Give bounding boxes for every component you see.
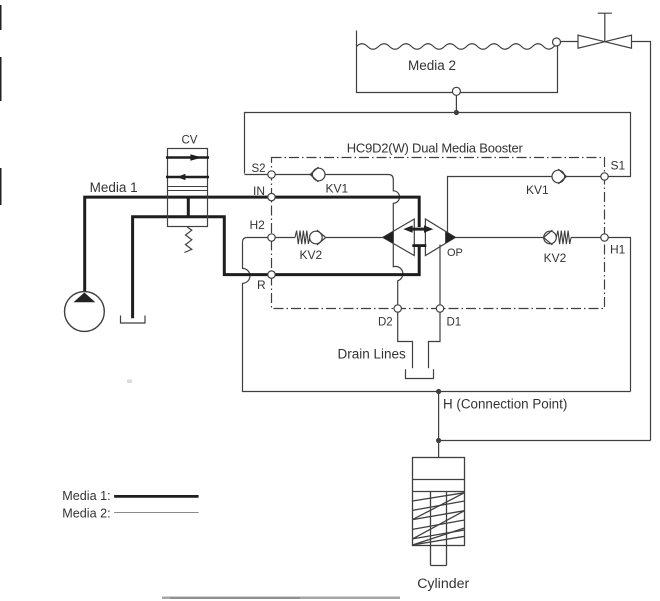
OP filled tips [383, 231, 393, 243]
svg-text:CV: CV [182, 135, 198, 147]
CV arrow right [166, 156, 209, 158]
svg-text:H1: H1 [610, 243, 626, 257]
drain lines funnel [398, 312, 440, 378]
wire KV2 left to OP [326, 237, 383, 239]
wire S1 to KV1 right to OP apex [448, 177, 601, 238]
wire H2 to KV2 left [275, 237, 295, 239]
wire outer box top [245, 113, 631, 177]
OP double arrow [403, 225, 433, 232]
wire outer box left to S2 [245, 174, 268, 176]
wire H1 to outer right drop to H line [608, 238, 630, 392]
svg-text:Drain Lines: Drain Lines [338, 347, 407, 362]
check valve KV1 right [552, 169, 566, 184]
oscillator OP hollow triangles [383, 219, 456, 256]
node tank bottom outlet [452, 87, 460, 95]
CV thin dividers [168, 187, 208, 191]
svg-text:KV2: KV2 [544, 251, 567, 265]
junction dot lower [436, 438, 441, 443]
svg-text:KV2: KV2 [300, 248, 323, 262]
reservoir tank small [121, 316, 146, 324]
svg-text:D2: D2 [378, 317, 393, 329]
svg-text:H2: H2 [250, 218, 266, 232]
tank Media 2 [357, 31, 558, 93]
CV stub [187, 197, 190, 217]
booster box HC9D2 [272, 158, 605, 309]
wire D1 drop from OP [439, 245, 441, 305]
svg-text:S1: S1 [611, 159, 626, 173]
junction dot on outer box [454, 110, 459, 115]
node tank outlet top [553, 38, 561, 46]
svg-text:Media 1: Media 1 [90, 180, 138, 195]
wire OP to KV2 right [455, 237, 543, 239]
svg-text:R: R [257, 278, 266, 292]
svg-text:IN: IN [253, 184, 265, 198]
svg-text:H (Connection Point): H (Connection Point) [443, 397, 567, 412]
wire tank to valve [561, 41, 579, 43]
junction dot H line [436, 389, 441, 394]
check valve KV2 right [544, 230, 557, 245]
svg-text:HC9D2(W) Dual Media Booster: HC9D2(W) Dual Media Booster [347, 141, 524, 156]
wire cylinder drop [438, 392, 440, 458]
pump Media 1 [65, 292, 105, 332]
svg-text:D1: D1 [447, 317, 462, 329]
OP crossbar [412, 244, 426, 247]
svg-text:KV1: KV1 [526, 183, 549, 197]
thick pump to IN to OP to R return path [85, 197, 420, 318]
svg-text:Media 2:: Media 2: [62, 507, 110, 521]
wire valve to right drop [632, 42, 651, 441]
wire tank bottom drop [455, 95, 457, 112]
cylinder [413, 458, 465, 566]
svg-text:KV1: KV1 [326, 182, 349, 196]
spring KV2 left [295, 231, 310, 245]
svg-text:OP: OP [447, 247, 463, 259]
CV valve box [168, 149, 208, 227]
CV spring [184, 227, 191, 253]
svg-text:Media 1:: Media 1: [62, 489, 110, 503]
svg-text:Media 2: Media 2 [408, 58, 456, 73]
port circles booster [268, 171, 608, 312]
check valve KV1 left [310, 167, 325, 182]
wire lower horizontal to cylinder junction [439, 440, 651, 442]
spring KV2 right [556, 231, 571, 245]
svg-text:Cylinder: Cylinder [417, 576, 469, 592]
wire KV2 right to H1 [571, 237, 601, 239]
wire H2 left drop with hop [243, 238, 631, 392]
CV arrow left [166, 176, 209, 178]
wire S2 to KV1 to D2 drain [275, 175, 403, 305]
valve shutoff [578, 13, 632, 48]
svg-text:S2: S2 [252, 163, 266, 175]
check valve KV2 left [310, 230, 326, 245]
